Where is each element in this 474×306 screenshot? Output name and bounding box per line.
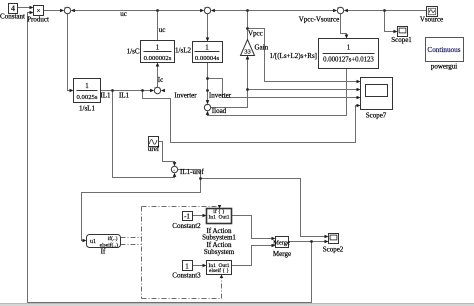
svg-text:×: × bbox=[37, 7, 41, 15]
wire Merge feedback to Product bbox=[28, 13, 312, 303]
arrow into sum B right bbox=[211, 9, 215, 13]
arrow into Scope1 bbox=[394, 30, 398, 34]
wire IL1 branch down to IL1-uref sum bbox=[113, 91, 175, 178]
wire Constant3 to subsystem bbox=[192, 265, 204, 267]
wire subsystem1 to Merge in1 bbox=[232, 216, 273, 239]
If Action Subsystem1 block bbox=[207, 209, 232, 224]
wire dash vertical left bbox=[141, 207, 143, 299]
svg-text:IL1-uref: IL1-uref bbox=[180, 168, 204, 176]
arrow into Product in1 bbox=[30, 6, 34, 10]
fraction bars bbox=[77, 52, 375, 91]
arrow into Scope2 in2 bbox=[325, 240, 329, 244]
If block bbox=[87, 235, 121, 248]
sum Iload bbox=[204, 104, 210, 110]
Scope1 block bbox=[398, 27, 408, 37]
svg-text:if(..): if(..) bbox=[108, 235, 118, 242]
svg-text:1/sC: 1/sC bbox=[127, 48, 140, 56]
svg-text:Out1: Out1 bbox=[219, 215, 230, 221]
arrow into Iload top bbox=[206, 100, 210, 104]
dash-dot control wires from If block bbox=[121, 207, 222, 299]
wire uc to sum A right input bbox=[73, 10, 158, 12]
arrow into subsystem In1 bbox=[203, 264, 207, 268]
wire inverter branch to Scope7 in3 bbox=[208, 79, 357, 98]
arrow into Merge in1 bbox=[272, 237, 276, 241]
arrow into Product in2 bbox=[30, 11, 34, 15]
arrow into Scope2 in1 bbox=[325, 235, 329, 239]
If Action Subsystem block bbox=[207, 261, 232, 275]
svg-text:1: 1 bbox=[205, 44, 209, 52]
wire 1/sC output up to uc node bbox=[157, 11, 159, 41]
wire uc node to sum B bbox=[158, 10, 202, 12]
svg-text:u1: u1 bbox=[90, 239, 96, 245]
Scope2 block bbox=[329, 234, 339, 244]
wire sum B down to 1/sL2 bbox=[207, 14, 209, 39]
Scope7 block bbox=[361, 78, 393, 110]
node uc bbox=[156, 9, 159, 12]
svg-text:Vpcc: Vpcc bbox=[248, 30, 263, 38]
wire Iload output up to Gain bbox=[211, 59, 248, 108]
svg-text:Product: Product bbox=[27, 16, 49, 24]
arrow into IL1-uref top bbox=[173, 162, 177, 166]
wire IL1-uref down to If block bbox=[82, 179, 201, 241]
svg-text:uc: uc bbox=[159, 26, 166, 34]
1/sL1 block bbox=[74, 79, 101, 103]
arrow into If input bbox=[83, 239, 87, 243]
svg-text:0.000127s+0.0123: 0.000127s+0.0123 bbox=[323, 57, 374, 64]
sum Ic bbox=[154, 87, 160, 93]
svg-text:Vsource: Vsource bbox=[420, 16, 443, 24]
Merge block bbox=[276, 237, 289, 248]
svg-text:Scope7: Scope7 bbox=[366, 112, 387, 120]
wire transfer output to Iload bottom bbox=[208, 69, 347, 116]
constant 4 block bbox=[9, 4, 18, 14]
svg-text:+: + bbox=[173, 169, 176, 174]
sum C Vpcc-Vsource bbox=[337, 7, 343, 13]
arrow into sum B left bbox=[200, 9, 204, 13]
svg-text:uc: uc bbox=[120, 10, 127, 18]
wire If out2 dash bbox=[121, 244, 142, 246]
wire dash top to subsystem1 bbox=[142, 206, 220, 208]
node Iload scope branch bbox=[246, 88, 249, 91]
svg-text:−: − bbox=[158, 87, 161, 92]
svg-text:Scope2: Scope2 bbox=[323, 246, 344, 254]
node Vsource branch bbox=[383, 9, 386, 12]
wire Vpcc to sum B right input bbox=[213, 10, 248, 12]
wire sum C to transfer block bbox=[341, 14, 347, 37]
arrowheads bbox=[30, 6, 398, 278]
svg-text:Merge: Merge bbox=[273, 240, 290, 247]
arrow into 1/sL1 bbox=[70, 89, 74, 93]
bar 1/sL1 bbox=[77, 90, 98, 92]
arrow into subsystem bottom action port bbox=[220, 275, 224, 279]
svg-text:33: 33 bbox=[244, 49, 251, 56]
arrow into sum A right bbox=[71, 9, 75, 13]
arrow into Scope7 in4 bbox=[357, 104, 361, 108]
node IL1 branch 2 bbox=[141, 89, 144, 92]
wire Iload branch to Scope7 in2 bbox=[248, 89, 357, 91]
svg-text:1: 1 bbox=[347, 44, 351, 52]
svg-text:Iload: Iload bbox=[212, 107, 227, 115]
svg-text:−: − bbox=[341, 7, 344, 12]
wire Constant to Product bbox=[18, 7, 30, 9]
svg-text:Gain: Gain bbox=[255, 44, 269, 52]
svg-text:1: 1 bbox=[185, 263, 189, 271]
wire If out1 dash bbox=[121, 237, 142, 239]
wire sum A down to 1/sL1 bbox=[68, 14, 71, 91]
wire Vpcc branch to Scope7 in1 bbox=[248, 29, 357, 82]
svg-text:+: + bbox=[206, 103, 209, 108]
node Merge feedback branch bbox=[310, 240, 313, 243]
svg-text:0.0025s: 0.0025s bbox=[77, 94, 98, 101]
arrow into Gain input bbox=[246, 56, 250, 60]
transfer 1/[(Ls+L2)s+Rs] block bbox=[319, 39, 379, 69]
1/sC block bbox=[141, 41, 175, 63]
arrow into Scope7 in3 bbox=[357, 96, 361, 100]
svg-text:1: 1 bbox=[85, 82, 89, 90]
svg-text:If: If bbox=[101, 248, 106, 256]
bar transfer bbox=[323, 53, 375, 55]
wire IL1 branch to Scope7 in4 bbox=[143, 91, 357, 143]
svg-text:-1: -1 bbox=[184, 213, 190, 221]
wire Ic sum up to 1/sC bbox=[157, 65, 159, 88]
node Vpcc scope branch bbox=[246, 27, 249, 30]
svg-text:+: + bbox=[64, 7, 67, 12]
svg-text:uref: uref bbox=[148, 145, 160, 153]
svg-text:Merge: Merge bbox=[273, 250, 291, 258]
svg-text:Constant: Constant bbox=[0, 13, 25, 21]
arrow into Scope7 in2 bbox=[357, 88, 361, 92]
wire Product to sum A bbox=[44, 10, 61, 12]
arrow into Ic right bbox=[161, 89, 165, 93]
product block bbox=[34, 6, 44, 16]
wire Constant2 to subsystem1 bbox=[192, 215, 204, 217]
node inverter branch bbox=[206, 77, 209, 80]
arrow into sum C right bbox=[344, 9, 348, 13]
svg-text:Constant3: Constant3 bbox=[172, 272, 201, 280]
svg-text:+: + bbox=[337, 7, 340, 12]
svg-text:powergui: powergui bbox=[431, 63, 457, 71]
uref source block bbox=[149, 137, 159, 147]
svg-text:0.00004s: 0.00004s bbox=[195, 55, 220, 62]
svg-text:IL1: IL1 bbox=[100, 92, 111, 100]
svg-text:elseif { }: elseif { } bbox=[209, 267, 229, 274]
wire Gain output up to Vpcc node bbox=[247, 11, 249, 40]
arrow into sum C left bbox=[333, 9, 337, 13]
svg-text:Inverter: Inverter bbox=[209, 92, 232, 100]
svg-text:Ic: Ic bbox=[158, 76, 163, 84]
sum A bbox=[64, 7, 70, 13]
arrow into sum A left bbox=[60, 9, 64, 13]
node inverter to Ic bbox=[206, 89, 209, 92]
wire IL1-uref output bbox=[178, 170, 201, 179]
wire 1/sL2 output down to Iload top bbox=[207, 63, 209, 101]
bar 1/sL2 bbox=[195, 51, 220, 53]
wire subsystem to Merge in2 bbox=[232, 246, 273, 266]
svg-text:+: + bbox=[204, 7, 207, 12]
svg-text:Scope1: Scope1 bbox=[391, 36, 412, 44]
wire dash bottom to subsystem bbox=[142, 278, 222, 299]
bottom window edge band bbox=[0, 304, 474, 306]
wire IL1-uref to Scope2 in1 bbox=[201, 179, 326, 237]
Constant2 block bbox=[183, 212, 193, 221]
arrow into Scope7 in1 bbox=[357, 80, 361, 84]
arrow into 1/sL2 top bbox=[206, 38, 210, 42]
bar 1/sC bbox=[144, 51, 172, 53]
svg-text:+: + bbox=[154, 87, 157, 92]
node Vpcc top bbox=[246, 9, 249, 12]
arrow into subsystem1 top action port bbox=[218, 205, 222, 209]
svg-text:Inverter: Inverter bbox=[174, 92, 197, 100]
arrow into Ic left bbox=[150, 89, 154, 93]
svg-text:−: − bbox=[208, 7, 211, 12]
svg-text:1/[(Ls+L2)s+Rs]: 1/[(Ls+L2)s+Rs] bbox=[269, 52, 317, 60]
svg-text:0.000002s: 0.000002s bbox=[144, 55, 172, 62]
node IL1 branch 1 bbox=[111, 89, 114, 92]
svg-text:Constant2: Constant2 bbox=[172, 222, 201, 230]
svg-text:1/sL2: 1/sL2 bbox=[175, 47, 191, 55]
arrow into IL1-uref bottom bbox=[173, 173, 177, 177]
arrow into subsystem1 In1 bbox=[203, 214, 207, 218]
wire Vpcc node to sum C bbox=[248, 10, 335, 12]
powergui block bbox=[426, 38, 464, 62]
svg-text:IL1: IL1 bbox=[119, 92, 130, 100]
arrow into transfer block top bbox=[345, 35, 349, 39]
wire Vsource to sum C right input bbox=[346, 10, 427, 12]
Constant3 block bbox=[183, 261, 193, 271]
svg-text:Continuous: Continuous bbox=[427, 46, 460, 54]
arrow into Iload bottom bbox=[206, 111, 210, 115]
svg-text:1: 1 bbox=[156, 44, 160, 52]
gain 33 triangle bbox=[241, 40, 255, 56]
svg-text:Subsystem: Subsystem bbox=[204, 248, 235, 256]
Vsource block bbox=[427, 7, 438, 17]
node IL1-uref branch bbox=[199, 177, 202, 180]
sum signs bbox=[64, 7, 344, 175]
wire Vsource branch to Scope1 bbox=[385, 11, 395, 32]
arrow into Merge in2 bbox=[272, 244, 276, 248]
svg-text:In1: In1 bbox=[209, 215, 217, 221]
svg-text:1/sL1: 1/sL1 bbox=[79, 105, 95, 113]
wire uref to IL1-uref sum bbox=[159, 142, 175, 163]
sum circles bbox=[64, 7, 343, 172]
wire IL1 to Ic sum bbox=[101, 90, 152, 92]
1/sL2 block bbox=[193, 42, 223, 63]
arrow into 1/sC bottom bbox=[156, 63, 160, 67]
sum IL1-uref bbox=[171, 166, 177, 172]
svg-text:Vpcc-Vsource: Vpcc-Vsource bbox=[299, 16, 339, 24]
wire Merge to Scope2 in2 bbox=[289, 241, 326, 243]
svg-text:−: − bbox=[68, 7, 71, 12]
sum B bbox=[204, 7, 210, 13]
